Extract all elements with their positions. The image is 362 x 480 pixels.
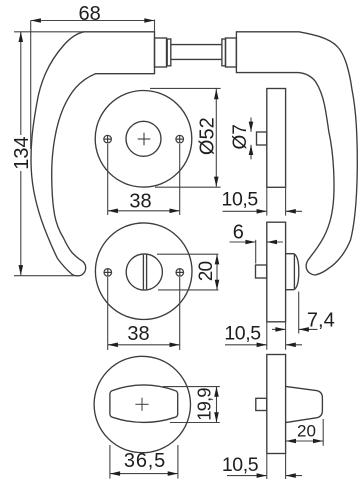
- dimension 68: [31, 18, 155, 149]
- dimension 10,5 middle: [225, 322, 302, 350]
- svg-text:Ø7: Ø7: [230, 124, 251, 149]
- svg-text:20: 20: [297, 422, 316, 441]
- svg-text:10,5: 10,5: [224, 323, 261, 345]
- top rosette right screw: [176, 135, 184, 143]
- dimension 134: [14, 32, 85, 276]
- wc thumbturn knob circle: [126, 254, 162, 290]
- svg-text:134: 134: [11, 136, 33, 169]
- dimension diameter 7: [249, 118, 254, 160]
- left neck collar: [155, 38, 167, 67]
- middle rosette circle: [95, 223, 192, 320]
- bottom rosette circle: [94, 356, 190, 452]
- top rosette side view strip: [267, 89, 286, 188]
- middle rosette right screw: [176, 269, 184, 277]
- right neck flange: [222, 39, 226, 66]
- dimension 19,9: [163, 387, 220, 423]
- svg-text:36,5: 36,5: [124, 450, 166, 472]
- svg-text:7,4: 7,4: [307, 310, 335, 332]
- svg-text:38: 38: [129, 191, 151, 213]
- dimension 7,4: [272, 292, 318, 334]
- svg-text:20: 20: [196, 262, 217, 282]
- dimension 10,5 bottom: [227, 454, 302, 479]
- svg-text:68: 68: [78, 3, 100, 25]
- dimension 38 middle: [108, 277, 180, 350]
- svg-text:38: 38: [127, 323, 149, 345]
- top spindle square: [257, 132, 267, 145]
- wc thumbturn bar: [142, 255, 144, 290]
- dimension 10,5 top: [223, 188, 303, 216]
- middle rosette left screw: [104, 269, 112, 277]
- top rosette spindle cross: [138, 133, 151, 146]
- dimension 6: [230, 240, 284, 264]
- dimension 20 bottom: [286, 419, 323, 446]
- dimension 36,5: [110, 445, 178, 479]
- svg-text:19,9: 19,9: [194, 388, 215, 421]
- top rosette circle: [95, 91, 192, 188]
- left lever handle: [31, 32, 154, 276]
- key cover side view: [286, 386, 323, 422]
- svg-text:Ø52: Ø52: [197, 117, 219, 155]
- middle spindle square: [256, 265, 267, 278]
- right lever handle: [236, 32, 357, 275]
- bottom rosette side view strip: [267, 355, 286, 454]
- svg-text:10,5: 10,5: [222, 189, 259, 211]
- label 134: [12, 135, 29, 171]
- dimension diameter 52: [150, 88, 221, 187]
- top rosette neck circle: [126, 121, 161, 156]
- right neck collar: [226, 38, 237, 67]
- top rosette left screw: [104, 135, 112, 143]
- key cover front view: [110, 385, 178, 423]
- bottom rosette cross: [135, 398, 148, 411]
- svg-text:6: 6: [233, 222, 244, 244]
- dimension 20 middle: [157, 254, 219, 290]
- spindle shaft: [171, 44, 222, 46]
- left neck flange: [167, 39, 171, 66]
- svg-text:10,5: 10,5: [222, 454, 259, 476]
- wc thumbturn side view: [286, 254, 299, 290]
- bottom spindle square: [256, 398, 267, 410]
- dimension 38 top: [108, 144, 180, 215]
- middle rosette side view strip: [267, 222, 286, 322]
